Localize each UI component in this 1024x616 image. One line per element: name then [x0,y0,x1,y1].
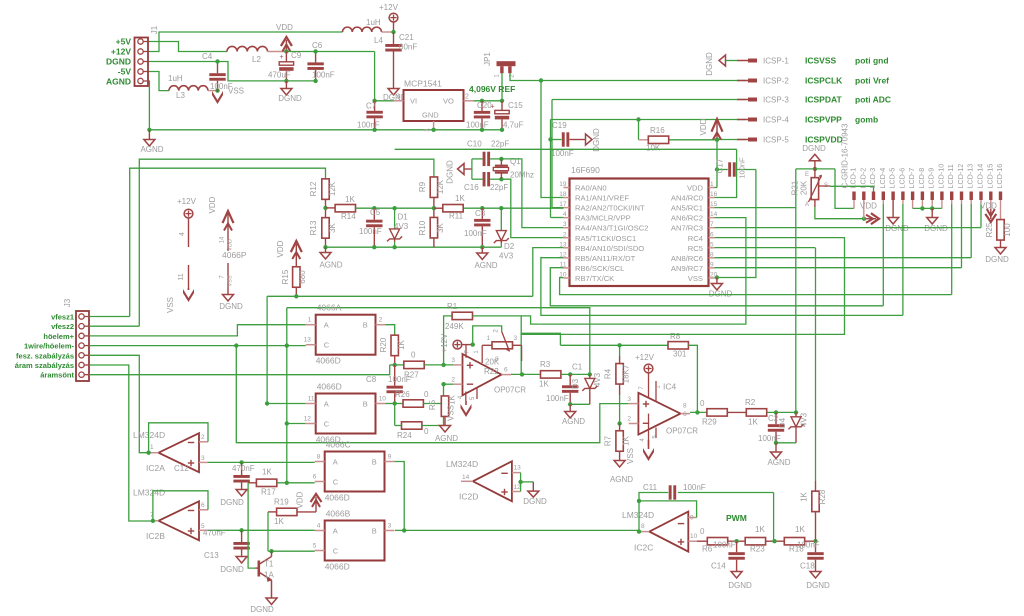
diode D1 zener 4V3 [392,206,396,210]
junction C12 [239,460,243,464]
svg-text:12K: 12K [328,181,337,196]
wire fesz.szabalyzas to IC2A out [89,355,149,452]
resistor R2 1K [746,409,766,416]
svg-text:+12V: +12V [379,3,399,12]
pin ICSP-5 [737,139,748,141]
svg-text:3: 3 [396,94,400,101]
pin 7 AN7/RC3 [709,227,715,229]
svg-text:249K: 249K [445,322,464,331]
svg-text:LCD-5: LCD-5 [888,168,897,189]
junction IC4 - node [617,421,621,425]
svg-text:3: 3 [563,221,567,228]
svg-text:LM324D: LM324D [622,510,654,520]
svg-text:1K: 1K [748,418,758,427]
wire LCD-12 to RC7 [961,200,963,204]
svg-text:RA5/T1CKI/OSC1: RA5/T1CKI/OSC1 [575,234,636,243]
svg-text:RA4/AN3/T1GI/OSC2: RA4/AN3/T1GI/OSC2 [575,224,648,233]
svg-text:D2: D2 [504,242,515,251]
wire RC5 to R28 [715,247,816,249]
svg-text:AGND: AGND [562,417,585,426]
svg-text:2: 2 [379,317,383,324]
wire LCD-5 to DGND [892,200,894,218]
wire AGND rail [149,129,502,131]
svg-text:1A: 1A [264,571,274,580]
wire ICSP-4 ICSPVPP [551,119,747,121]
pin 17 RA2/AN2/T0CKI/INT [563,207,569,209]
svg-text:+: + [490,104,494,111]
svg-text:R21: R21 [791,180,800,195]
svg-text:1K: 1K [755,525,765,534]
ground DGND under C18 [810,572,821,579]
svg-text:MCP1541: MCP1541 [404,79,442,89]
junction C4 top [215,59,219,63]
svg-text:LCD-16: LCD-16 [995,164,1004,189]
svg-text:R16: R16 [650,126,665,135]
junction R23 R18 [772,539,776,543]
svg-text:1: 1 [424,128,431,132]
svg-text:C4: C4 [202,52,213,61]
pin LCD-11 [950,192,953,201]
wire hoelem+ to 4066A A [89,325,306,336]
svg-text:RB4/AN10/SDI/SDO: RB4/AN10/SDI/SDO [575,244,644,253]
pin 4 RA3/MCLR/VPP [563,217,569,219]
resistor R17 1K [248,482,256,484]
svg-text:VDD: VDD [687,184,704,193]
junction 4066 out / R26 [393,401,397,405]
svg-text:VDD: VDD [860,202,877,211]
ground DGND 4066 [223,295,234,302]
svg-text:-5V: -5V [118,67,132,77]
svg-text:+12V: +12V [177,197,197,206]
capacitor C7 [374,101,376,111]
svg-text:C12: C12 [174,464,189,473]
pin 8 AN8/RC6 [709,257,715,259]
wire LCD-2 lead [863,200,865,219]
wire IC2D inputs to DGND [520,473,522,492]
svg-text:C1: C1 [572,363,583,372]
svg-text:8: 8 [710,251,714,258]
pin 3 RA4/AN3/T1GI/OSC2 [563,227,569,229]
junction T1 collector [269,549,273,553]
junction IC2C out [637,529,641,533]
svg-text:6: 6 [313,474,317,481]
svg-text:13: 13 [514,465,522,472]
svg-text:4: 4 [317,523,321,530]
svg-text:R1: R1 [447,302,458,311]
svg-text:IC2D: IC2D [459,492,478,502]
wire 4066C out down [395,462,405,531]
svg-text:ICSPDAT: ICSPDAT [805,95,842,105]
wire IC2B feedback [153,491,208,521]
wire VDD to PIC pin1 [716,140,718,188]
svg-text:470nF: 470nF [232,464,255,473]
resistor R27 0R [404,361,424,368]
ground DGND under T1 [266,598,277,605]
resistor R10 [430,217,437,238]
svg-text:680: 680 [298,270,307,284]
wire IC2B + row to 4066B [208,529,315,531]
wire to R1 [444,316,453,365]
svg-text:R28: R28 [818,489,827,504]
wire RC7 to LCD-12 [715,267,962,269]
wire +5V pin1 to L2 [148,42,227,52]
svg-text:C18: C18 [800,562,815,571]
pin LCD-1 [852,192,855,201]
svg-text:5: 5 [710,241,714,248]
svg-text:4: 4 [563,211,567,218]
diode D2 zener 4V3 [499,206,503,210]
svg-text:3K: 3K [436,222,445,232]
svg-text:R20: R20 [379,337,388,352]
junction VDD LCD-2 [862,217,866,221]
junction D4 top [794,410,798,414]
svg-text:DGND: DGND [728,581,752,590]
svg-text:RA2/AN2/T0CKI/INT: RA2/AN2/T0CKI/INT [575,204,645,213]
svg-text:100nF: 100nF [797,541,820,550]
svg-text:20K: 20K [800,180,809,195]
svg-text:9: 9 [710,261,714,268]
svg-text:4066P: 4066P [222,250,247,260]
capacitor C17 [717,169,728,171]
power VDD arrow down LCD-15 [985,214,996,222]
svg-text:AGND: AGND [140,145,163,154]
wire -5V pin4 to L3 [148,72,169,91]
svg-text:ICSP-3: ICSP-3 [763,96,789,105]
wire 4066A out to R20 [386,325,395,336]
svg-text:7: 7 [710,221,714,228]
svg-text:6: 6 [504,367,508,374]
junction IC1 out [520,372,524,376]
svg-text:4066A: 4066A [317,303,342,313]
svg-text:áram szabályzás: áram szabályzás [15,361,74,370]
svg-text:4066D: 4066D [317,382,342,392]
svg-text:R2: R2 [745,398,756,407]
svg-text:R4: R4 [604,368,613,379]
pin 7 stub [465,345,467,358]
wire RC0 drop [715,149,737,197]
ground DGND LCD-5 [888,218,899,225]
svg-text:2: 2 [563,231,567,238]
op-amp IC2B LM324D [159,501,200,540]
wire RC4 staircase [521,238,844,335]
svg-text:1K: 1K [455,194,465,203]
wire D1 node to RC0 line [395,148,737,150]
svg-text:RA0/AN0: RA0/AN0 [575,184,607,193]
svg-text:3: 3 [514,335,518,342]
svg-text:DGND: DGND [219,302,243,311]
junction IC4 out [695,410,699,414]
wire ICSP-4 down to MCLR [550,120,552,218]
svg-text:4066D: 4066D [316,356,341,366]
pin 20 VSS [709,277,715,279]
svg-text:C8: C8 [366,375,377,384]
svg-text:R25: R25 [985,222,994,237]
svg-text:C21: C21 [399,33,414,42]
svg-text:0: 0 [424,427,429,436]
svg-text:C9: C9 [291,51,302,60]
resistor R9 [430,177,437,198]
svg-text:A: A [333,527,338,536]
resistor R12 [322,179,329,200]
wire 1wire vertical to amp and switches [286,308,288,483]
junction C3 bottom [480,245,484,249]
svg-text:höelem+: höelem+ [43,332,74,341]
junction R20 bottom node [393,363,397,367]
svg-text:L3: L3 [176,91,185,100]
svg-text:+5V: +5V [116,37,132,47]
svg-text:AN4/RC0: AN4/RC0 [671,194,703,203]
svg-text:ICSPVPP: ICSPVPP [805,115,842,125]
svg-text:19: 19 [559,181,567,188]
svg-text:22pF: 22pF [490,183,508,192]
svg-text:14: 14 [220,236,226,243]
svg-text:ICSP-5: ICSP-5 [763,136,789,145]
svg-text:LCD-6: LCD-6 [897,168,906,189]
svg-text:12: 12 [304,416,312,423]
ground AGND under R13 [325,247,327,252]
wire AGND pin5 down [148,81,149,130]
svg-text:100nF: 100nF [312,71,335,80]
svg-text:ICSP-4: ICSP-4 [763,116,789,125]
svg-text:100nF: 100nF [551,149,574,158]
svg-text:OP07CR: OP07CR [494,386,526,395]
junction C15 top [500,99,504,103]
svg-text:DGND: DGND [220,498,244,507]
svg-text:J3: J3 [63,298,72,307]
junction C13 [239,528,243,532]
power VDD R19 [315,507,317,512]
svg-text:C11: C11 [643,483,658,492]
svg-text:A: A [805,202,809,208]
svg-text:R15: R15 [281,269,290,284]
svg-text:LM324D: LM324D [446,459,478,469]
svg-text:B: B [372,527,377,536]
svg-text:AN5/RC1: AN5/RC1 [671,204,703,213]
svg-text:C14: C14 [711,562,726,571]
svg-text:A: A [324,400,329,409]
junction R15 bottom [294,294,298,298]
svg-text:0: 0 [700,527,705,536]
junction C21 top [391,30,395,34]
svg-text:D1: D1 [398,213,409,222]
svg-text:DGND: DGND [523,497,547,506]
svg-text:AGND: AGND [474,261,497,270]
svg-text:R12: R12 [309,181,318,196]
svg-text:14: 14 [462,474,470,481]
svg-text:1K: 1K [800,491,809,501]
svg-text:vfesz1: vfesz1 [51,313,74,322]
junction op-amp + node [441,363,445,367]
wire 1wire/hoelem- to 4066A C [89,345,306,347]
junction D3 top [588,372,592,376]
svg-text:9: 9 [690,515,694,522]
svg-text:C7: C7 [366,102,377,111]
ground DGND under C14 [731,572,742,579]
svg-text:RC5: RC5 [688,244,703,253]
wire 4066 pin12 row [287,423,306,425]
wire pin9 connect [639,501,697,518]
svg-text:RA1/AN1/VREF: RA1/AN1/VREF [575,194,629,203]
transistor T1 [257,561,260,577]
svg-text:1K: 1K [795,525,805,534]
svg-text:áramsönt: áramsönt [40,371,74,380]
svg-text:OP07CR: OP07CR [666,427,698,436]
svg-text:100nF: 100nF [388,375,411,384]
power VSS IC1 [465,392,467,402]
svg-text:C: C [333,478,339,487]
svg-text:100nF: 100nF [683,483,706,492]
svg-text:E: E [805,172,809,178]
svg-text:1: 1 [487,335,491,342]
svg-text:+12V: +12V [440,333,449,353]
svg-text:3: 3 [451,357,455,364]
resistor R6 0R [697,540,707,542]
inductor L3 [169,86,208,91]
junction IC2B out [151,519,155,523]
ground DGND above R21 [814,161,816,169]
svg-text:LCD-1: LCD-1 [849,168,858,189]
svg-text:AGND: AGND [106,77,131,87]
svg-text:C10: C10 [467,140,482,149]
junction R13 bottom AGND [323,245,327,249]
svg-text:R22: R22 [484,367,499,376]
wire ICSP-2 ICSPCLK [541,80,746,82]
pin 1 VDD [709,187,715,189]
ground AGND under C1 [569,404,571,411]
svg-text:AN9/RC7: AN9/RC7 [671,264,703,273]
inductor L2 [227,46,268,51]
junction C1 bottom [568,402,572,406]
svg-text:5: 5 [313,543,317,550]
wire RC1 to ground net [715,207,796,209]
resistor R23 1K [745,538,765,545]
svg-text:J1: J1 [150,25,159,34]
svg-text:AN6/RC2: AN6/RC2 [671,214,703,223]
svg-text:0: 0 [411,351,416,360]
wire switch bus to IC2C [404,529,639,531]
resistor R8 301 [620,344,668,346]
svg-text:LCD-3: LCD-3 [868,168,877,189]
svg-text:RB6/SCK/SCL: RB6/SCK/SCL [575,264,624,273]
svg-text:RB5/AN11/RX/DT: RB5/AN11/RX/DT [575,254,636,263]
ground AGND under R5 [440,426,451,433]
svg-text:R7: R7 [604,435,613,446]
capacitor C21 [393,32,395,44]
junction R17 right [285,481,289,485]
IC MCP1541 [404,90,464,121]
junction C17 tap [715,167,719,171]
svg-text:301: 301 [673,350,687,359]
pin 2 RA5/T1CKI/OSC1 [563,237,569,239]
svg-text:2: 2 [451,377,455,384]
pin 14 AN6/RC2 [709,217,715,219]
svg-text:B: B [363,400,368,409]
svg-text:1: 1 [308,317,312,324]
pin LCD-3 [872,192,875,201]
resistor R4 18K7 [619,345,621,356]
svg-text:00nF: 00nF [399,43,417,52]
pin LCD-5 [891,192,894,201]
svg-text:ICSVSS: ICSVSS [805,56,837,66]
ground DGND under C12 [236,490,247,497]
svg-text:1K: 1K [262,468,272,477]
svg-text:LCD-2: LCD-2 [858,168,867,189]
svg-text:D4: D4 [778,417,787,428]
connector J3 [76,311,89,381]
svg-text:11: 11 [178,273,185,280]
wire R15 node to 4066 pin11 [267,296,306,403]
wire IC2A feedback [149,423,208,453]
svg-text:VSS: VSS [228,87,244,96]
svg-text:8: 8 [683,403,687,410]
pin ICSP-3 [737,99,748,101]
svg-text:R19: R19 [274,498,289,507]
svg-text:RA3/MCLR/VPP: RA3/MCLR/VPP [575,214,631,223]
wire C17 to VSS pin [717,170,756,278]
svg-text:1K: 1K [448,394,457,404]
ground AGND below J1 [148,130,150,140]
capacitor C20 [481,101,483,111]
capacitor C4 [217,62,219,74]
svg-text:100nF: 100nF [357,121,380,130]
svg-text:6: 6 [683,411,687,418]
resistor R16 [638,120,640,140]
svg-text:VDD: VDD [276,240,285,257]
wire 1wire to IC4 + input bus [236,346,628,443]
svg-text:VDD: VDD [276,23,293,32]
wire IC4 output [681,413,691,415]
svg-text:1K: 1K [397,339,406,349]
wire 4066 pin10 to node [386,403,395,405]
ground DGND under C13 [236,557,247,564]
resistor R1 249K [452,312,472,319]
svg-text:+12V: +12V [111,47,131,57]
junction C9 bottom [284,79,288,83]
svg-text:4066C: 4066C [326,440,351,450]
svg-text:VDD: VDD [699,118,708,135]
svg-text:VO: VO [443,97,454,106]
power VDD arrow right [871,213,879,224]
svg-text:DGND: DGND [806,581,830,590]
wire ICSP-3 ICSPDAT [552,99,746,101]
svg-text:2: 2 [627,416,631,423]
junction AGND at J1 [147,128,151,132]
svg-text:fesz. szabályzás: fesz. szabályzás [16,351,74,360]
svg-text:LCD-8: LCD-8 [917,168,926,189]
svg-text:IC2A: IC2A [146,463,165,473]
svg-text:PWM: PWM [726,513,747,523]
wire R1 feedback to RC2 line [473,316,540,324]
wire LCD-7..10 ground tie [912,200,914,208]
svg-text:20K: 20K [485,358,500,367]
svg-text:0: 0 [700,399,705,408]
junction C7 bottom [372,128,376,132]
junction supply node IC1 [471,342,475,346]
svg-text:DGND: DGND [250,605,274,614]
resistor R28 1K [815,248,817,481]
svg-text:ICSPCLK: ICSPCLK [805,76,843,86]
capacitor C14 [736,541,738,552]
crystal Q1 20Mhz [499,157,503,161]
svg-text:R26: R26 [395,390,410,399]
wire vfesz2 to R9 divider [139,159,434,326]
wire RB7 to LCD-11 bus [560,278,952,295]
resistor R14 [326,207,336,209]
power VSS below C4 [217,91,219,92]
svg-text:LCD-10: LCD-10 [936,164,945,189]
junction VDD R16 [715,138,719,142]
wire R15 node [267,295,533,297]
